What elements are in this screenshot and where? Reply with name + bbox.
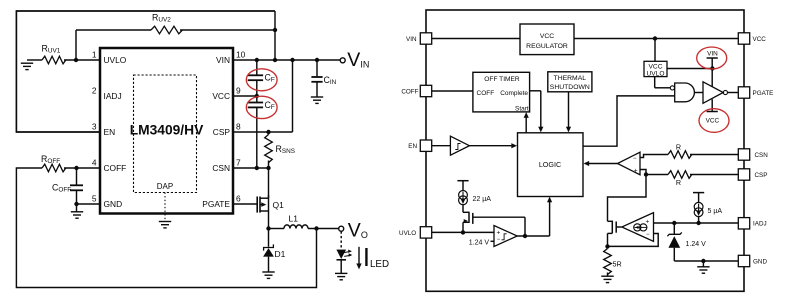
svg-text:REGULATOR: REGULATOR [526,43,568,50]
svg-text:DAP: DAP [157,182,173,191]
svg-text:VCC: VCC [540,33,554,40]
svg-text:−: − [633,156,637,162]
svg-text:Complete: Complete [500,90,528,97]
svg-text:7: 7 [236,157,241,167]
svg-text:PGATE: PGATE [753,90,774,97]
svg-text:1: 1 [92,49,97,59]
svg-text:5R: 5R [613,259,622,268]
svg-text:VCC: VCC [706,118,720,125]
svg-text:GND: GND [104,199,123,209]
svg-text:OFF TIMER: OFF TIMER [484,76,520,83]
svg-text:EN: EN [408,143,417,150]
svg-text:L1: L1 [289,214,299,224]
svg-text:CSN: CSN [212,163,230,173]
svg-text:UVLO: UVLO [399,230,416,237]
svg-text:R: R [676,143,681,152]
svg-text:COFF: COFF [477,90,495,97]
svg-text:4: 4 [92,157,97,167]
svg-text:5: 5 [92,193,97,203]
svg-text:Q1: Q1 [273,200,285,210]
svg-text:COFF: COFF [401,89,418,96]
svg-text:THERMAL: THERMAL [554,75,587,82]
svg-text:LM3409/HV: LM3409/HV [130,122,204,137]
svg-text:1.24 V: 1.24 V [686,241,707,248]
svg-text:IADJ: IADJ [104,91,122,101]
svg-text:−: − [646,232,650,238]
svg-text:VIN: VIN [216,55,230,65]
svg-text:R: R [676,178,681,187]
svg-text:Start: Start [515,105,529,112]
svg-text:SHUTDOWN: SHUTDOWN [550,84,590,91]
svg-text:PGATE: PGATE [202,199,230,209]
svg-text:VIN: VIN [707,50,718,57]
svg-text:GND: GND [753,258,767,265]
svg-text:VCC: VCC [212,91,230,101]
svg-text:3: 3 [92,121,97,131]
svg-text:VCC: VCC [753,36,767,43]
svg-text:CSN: CSN [755,152,769,159]
svg-text:+: + [646,218,650,225]
svg-text:IADJ: IADJ [753,221,767,228]
svg-text:8: 8 [236,121,241,131]
svg-text:COFF: COFF [104,163,127,173]
svg-text:1.24 V: 1.24 V [469,239,490,246]
svg-text:5 µA: 5 µA [708,208,723,215]
svg-text:VIN: VIN [406,36,417,43]
svg-text:CSP: CSP [755,172,768,179]
svg-text:−: − [497,237,501,243]
svg-text:6: 6 [236,193,241,203]
svg-text:9: 9 [236,85,241,95]
svg-text:UVLO: UVLO [647,70,665,77]
svg-text:EN: EN [104,127,116,137]
svg-text:22 µA: 22 µA [473,196,492,203]
svg-text:D1: D1 [275,249,286,259]
svg-text:10: 10 [236,49,246,59]
svg-text:+: + [497,229,501,236]
svg-text:+: + [634,168,638,175]
svg-text:LOGIC: LOGIC [539,160,561,169]
svg-text:CSP: CSP [213,127,231,137]
svg-text:VCC: VCC [649,63,663,70]
svg-text:2: 2 [92,85,97,95]
svg-text:UVLO: UVLO [104,55,127,65]
